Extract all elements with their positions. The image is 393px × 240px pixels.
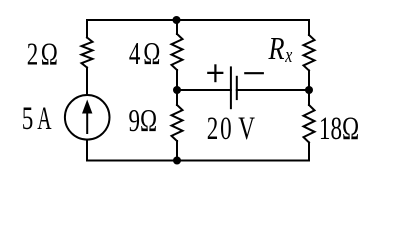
node D junction dot (bottom middle) — [173, 157, 181, 165]
svg-text:9Ω: 9Ω — [129, 103, 158, 139]
resistor Rx (right top branch) — [304, 20, 315, 90]
svg-text:V: V — [238, 111, 255, 147]
svg-text:A: A — [37, 100, 52, 136]
svg-text:18Ω: 18Ω — [319, 111, 359, 147]
wire bottom — [87, 160, 309, 162]
wire middle right (battery - to node C) — [237, 89, 309, 91]
label 18Ω — [319, 111, 359, 147]
resistor 4Ω (middle top branch) — [172, 20, 183, 90]
label 9Ω — [129, 103, 158, 139]
battery V1 20V plates — [231, 67, 237, 108]
minus polarity mark — [245, 72, 262, 74]
wire top — [87, 19, 309, 21]
label 4Ω — [129, 36, 163, 72]
label 5 A — [22, 101, 34, 137]
label 20 V — [207, 111, 234, 147]
svg-text:R: R — [268, 32, 285, 67]
plus polarity mark — [208, 65, 222, 81]
node C junction dot (middle right) — [305, 86, 313, 94]
label 2Ω — [27, 37, 60, 73]
svg-text:20: 20 — [207, 111, 234, 147]
label Rx — [268, 32, 285, 67]
node A junction dot (top middle) — [173, 16, 181, 24]
node B junction dot (middle) — [173, 86, 181, 94]
svg-text:2Ω: 2Ω — [27, 37, 60, 73]
svg-text:4Ω: 4Ω — [129, 36, 163, 72]
wire middle left (node B to battery +) — [177, 89, 231, 91]
resistor 18Ω (right bottom branch) — [304, 90, 315, 161]
resistor 2Ω (left top branch) — [82, 20, 93, 95]
svg-text:x: x — [284, 44, 292, 68]
current source I1 5A (left bottom branch) — [65, 95, 110, 161]
resistor 9Ω (middle bottom branch) — [172, 90, 183, 161]
svg-text:5: 5 — [22, 101, 34, 137]
